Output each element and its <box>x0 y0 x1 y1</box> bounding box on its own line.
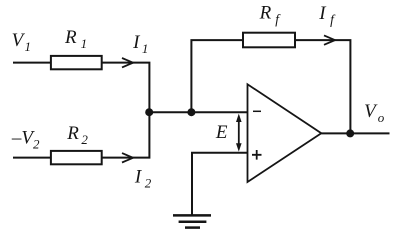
svg-text:I1: I1 <box>132 32 148 56</box>
arrow I2 <box>122 153 133 162</box>
ground <box>173 215 211 227</box>
svg-text:R2: R2 <box>66 123 88 147</box>
arrow I1 <box>122 58 133 67</box>
node output dot <box>346 129 354 137</box>
op-amp plus pin label <box>252 150 262 160</box>
wire junction row to op-amp inverting input <box>149 111 248 113</box>
voltage arrow E (double headed) <box>236 114 242 152</box>
wire V2 input <box>13 157 50 159</box>
node junction dot B <box>187 108 195 116</box>
svg-text:–V2: –V2 <box>11 128 40 152</box>
svg-text:Rf: Rf <box>259 2 282 26</box>
svg-text:If: If <box>318 3 336 27</box>
wire R1 to corner down to junction <box>102 63 150 113</box>
wire R2 to corner up to junction <box>102 112 150 157</box>
svg-text:R1: R1 <box>64 27 87 51</box>
resistor R1 <box>51 56 102 69</box>
svg-text:Vo: Vo <box>364 101 385 125</box>
arrow If <box>324 35 335 44</box>
wire output <box>321 132 389 134</box>
op-amp U1 <box>248 84 322 182</box>
wire V1 input <box>13 62 50 64</box>
svg-text:E: E <box>215 122 228 143</box>
wire Rf to right corner down to output <box>296 40 350 133</box>
resistor R2 <box>51 151 102 164</box>
wire noninverting input to ground <box>192 153 248 215</box>
node junction dot A <box>145 108 153 116</box>
op-amp minus pin label <box>253 110 261 112</box>
wire feedback left vertical and top <box>191 40 243 112</box>
svg-text:V1: V1 <box>12 30 31 54</box>
resistor Rf <box>243 33 295 48</box>
svg-text:I2: I2 <box>134 167 152 191</box>
